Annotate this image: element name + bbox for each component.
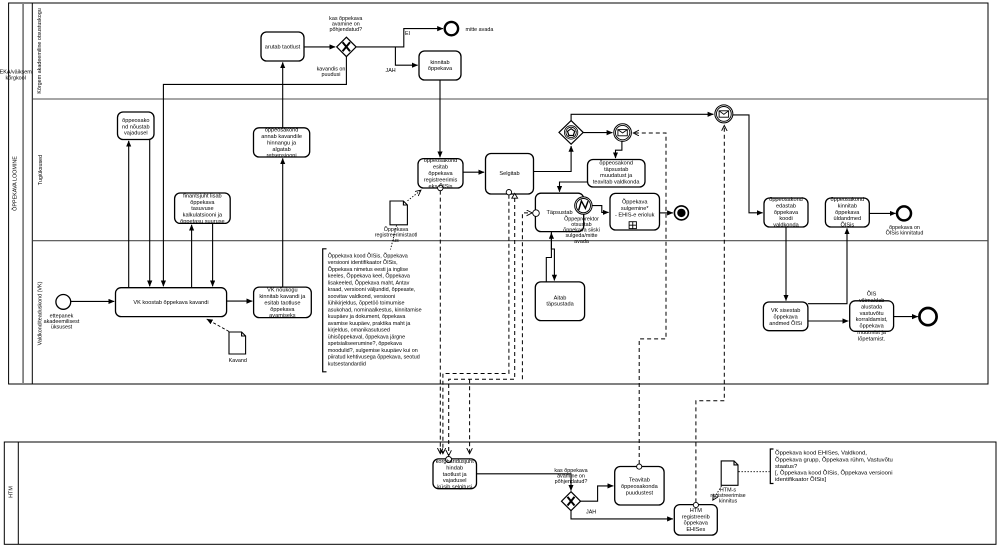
wire õppeosakond täpsustab to Täpsustab (560, 182, 588, 192)
svg-text:Õppekava kood ÕISis, Õppekava: Õppekava kood ÕISis, Õppekava (328, 252, 408, 259)
svg-text:Selgitab: Selgitab (499, 171, 519, 177)
start event ettepanek (56, 295, 71, 310)
task texts (122, 45, 888, 533)
boundary circle on Täpsustab left (533, 210, 540, 217)
svg-text:kinnitabõppekava: kinnitabõppekava (428, 60, 453, 72)
task õppeosakond täpsustab muudatust (588, 160, 646, 188)
end event õppekava on ÕISis kinnitatud (897, 206, 911, 220)
wire message flow to Täpsustab boundary (522, 213, 532, 379)
svg-text:asukohad, nominaalkestus, kinn: asukohad, nominaalkestus, kinnitamise (328, 307, 422, 313)
task õppeosakond esitab õppekava registreerimiseks (418, 159, 463, 188)
wire message flow esitab to hindab (439, 191, 441, 454)
wire VK koostab to VK nõukogu (227, 300, 253, 302)
svg-text:õppekava onÕISis kinnitatud: õppekava onÕISis kinnitatud (886, 225, 924, 237)
wire error event to Õppekava sulgemine (592, 206, 609, 213)
svg-text:kõrgkool: kõrgkool (6, 76, 26, 82)
wire association kinnitus to HTM registreerib (713, 486, 722, 500)
svg-text:ÕPPEKAVA LOOMINE: ÕPPEKAVA LOOMINE (11, 156, 18, 211)
svg-text:Täpsustab: Täpsustab (546, 210, 572, 216)
wire Selgitab to event gateway (534, 146, 572, 172)
wire event gateway to message event 1 (583, 132, 612, 134)
svg-text:lühikirjeldus, õppetöö toimumi: lühikirjeldus, õppetöö toimumise (328, 301, 405, 307)
svg-text:VK koostab õppekava kavandi: VK koostab õppekava kavandi (133, 300, 208, 306)
task õppeosakond kinnitab õppekava üldandmed (825, 198, 869, 227)
task VK koostab õppekava kavandi (116, 288, 227, 317)
boundary circle on Selgitab (506, 190, 511, 195)
pool label band separator (22, 3, 24, 384)
task VK sisestab õppekava andmed ÕISi (763, 302, 808, 331)
boundary circle on Teavitab top (637, 464, 642, 469)
wire gateway EI to mitte avada (356, 29, 443, 47)
svg-text:[, Õppekava kood ÕISis, Õppeka: [, Õppekava kood ÕISis, Õppekava versioo… (775, 470, 893, 477)
svg-text:VK sisestabõppekavaandmed ÕISi: VK sisestabõppekavaandmed ÕISi (769, 308, 802, 327)
message event 2 (715, 105, 733, 123)
wire õppeosakond esitab to Selgitab (463, 171, 484, 173)
svg-text:õppeosakondesitabõppekavaregis: õppeosakondesitabõppekavaregistreerimise… (424, 158, 458, 190)
wire message flow Teavitab to message event 1 (634, 133, 667, 464)
svg-text:staatus?: staatus? (775, 464, 798, 470)
wire VK nõukogu up to õppeosakond annab kavandile (282, 158, 284, 287)
task Teavitab õppeosakonda puudustest (615, 467, 664, 506)
svg-text:HTM: HTM (9, 486, 15, 498)
gateway kas õppekava avamine on põhjendatud (337, 37, 356, 56)
wire õppeosakond annab kavandile up to arutab taotlust (282, 62, 284, 127)
error boundary event on Täpsustab (575, 197, 592, 214)
svg-text:keeles, Õppekava keel, Õppekav: keeles, Õppekava keel, Õppekava (328, 273, 410, 280)
wire message event 2 to õppeosakond edastab (733, 115, 763, 213)
wire finantsjuht down to VK koostab (212, 223, 214, 286)
wire gateway HTM JAH to HTM registreerib (571, 510, 673, 519)
svg-text:kuupäev ja dokument, õppekava: kuupäev ja dokument, õppekava (328, 314, 406, 320)
svg-text:identifikaator ÕISis]: identifikaator ÕISis] (775, 476, 826, 483)
end event after ÕIS võimaldab (919, 308, 936, 325)
task HTM registreerib õppekava EHISes (674, 505, 717, 535)
svg-text:Õppekava kood EHISes, Valdkond: Õppekava kood EHISes, Valdkond, (775, 450, 867, 457)
svg-text:avamise kuupäev, praktika maht: avamise kuupäev, praktika maht ja (328, 321, 411, 327)
svg-text:kraad, versiooni väljundid, õp: kraad, versiooni väljundid, õppeaste, (328, 287, 416, 293)
boundary circle on HTM registreerib top (693, 502, 698, 507)
task VK nõukogu kinnitab kavandi (254, 287, 312, 318)
svg-text:JAH: JAH (586, 510, 596, 516)
svg-text:versiooni identifikaator ÕISis: versiooni identifikaator ÕISis, (328, 259, 398, 266)
wire VK koostab up to õppeosakond nõustab (128, 141, 130, 288)
annotation bracket middle (323, 249, 327, 372)
wire VK sisestab up to õppeosakond kinnitab (808, 228, 847, 303)
task arutab taotlust (261, 32, 304, 61)
wire Täpsustab down to Aitab täpsustada (551, 232, 554, 281)
svg-text:moodulid?, sulgemise kuupäev k: moodulid?, sulgemise kuupäev kui on (328, 348, 418, 354)
task õppeosakond edastab õppekava koodi (764, 198, 808, 227)
svg-text:õppeosakond nõustabvajadusel: õppeosakond nõustabvajadusel (122, 118, 150, 137)
svg-text:soovitav valdkond, versiooni: soovitav valdkond, versiooni (328, 294, 395, 300)
wire message flow Selgitab triangle to hindab circle (449, 198, 515, 456)
svg-text:kas õppekavaavamine onpõhjenda: kas õppekavaavamine onpõhjendatud? (329, 16, 362, 33)
svg-text:arutab taotlust: arutab taotlust (265, 45, 301, 51)
wire VK sisestab to ÕIS võimaldab (808, 320, 848, 322)
pool EKA/väiksem kõrgkool + ÕPPEKAVA LOOMINE (9, 3, 988, 384)
wire arutab taotlust to gateway (304, 46, 335, 48)
svg-text:EI: EI (405, 31, 410, 37)
wire association kinnitus to annotation HTM (739, 471, 770, 473)
annotation bracket HTM (770, 449, 773, 484)
wire Aitab täpsustada up to Täpsustab (546, 233, 551, 282)
wire gateway HTM to Teavitab (581, 486, 614, 501)
wire Õppekava sulgemine to terminate (660, 212, 673, 214)
svg-text:Kavand: Kavand (229, 358, 247, 364)
wire gateway kavandis on puudusi to VK koostab (163, 56, 346, 286)
wire hindab taotlust to gateway HTM (477, 474, 572, 491)
wire õppeosakond edastab down to VK sisestab (785, 227, 787, 301)
svg-text:kas õppekavaavamine onpõhjenda: kas õppekavaavamine onpõhjendatud? (554, 468, 587, 485)
wire kinnitab õppekava down to õppeosakond esitab (439, 80, 441, 157)
wire ÕIS võimaldab to end event (894, 316, 918, 318)
task Õppekava sulgemine (610, 193, 660, 230)
task hindab taotlust (433, 459, 477, 489)
svg-text:JAH: JAH (386, 68, 396, 74)
event gateway (559, 121, 583, 145)
task õppeosakond annab kavandile hinnangu (254, 128, 310, 157)
pool HTM (4, 442, 996, 544)
svg-text:Kõrgem akadeemiline otsustusko: Kõrgem akadeemiline otsustuskogu (37, 8, 43, 93)
subprocess marker Õppekava sulgemine (629, 222, 636, 229)
annotation text middle (328, 252, 422, 367)
task Selgitab (486, 154, 534, 195)
annotation text HTM (775, 450, 893, 484)
task finantsjuht lisab (175, 193, 231, 223)
svg-text:ÕISvõimaldabalustadavastuvõtuk: ÕISvõimaldabalustadavastuvõtukorraldamis… (856, 291, 888, 343)
wire association Kavand to VK koostab (207, 319, 229, 331)
wire õppeosakond nõustab down to VK koostab (149, 140, 151, 287)
task ÕIS võimaldab alustada (850, 301, 894, 332)
boundary circle on esitab (438, 185, 443, 190)
svg-text:spetsialiseerumine?, õppekava: spetsialiseerumine?, õppekava (328, 341, 402, 347)
boundary circle on hindab top (446, 457, 452, 463)
svg-text:Õppekava nimetus eesti ja ingl: Õppekava nimetus eesti ja inglise (328, 266, 408, 273)
wire association registreerimistaotlus to esitab (408, 190, 421, 201)
svg-text:Tugiüksused: Tugiüksused (38, 155, 44, 185)
svg-text:õppeosakondannab kavandilehinn: õppeosakondannab kavandilehinnangu jaalg… (261, 128, 302, 160)
task õppeosakond nõustab vajadusel (118, 112, 155, 140)
wire event gateway top to message event 2 (571, 114, 713, 120)
wire message flow junction to hindab (469, 379, 471, 453)
svg-text:lisakeeled, Õppekava maht, Ant: lisakeeled, Õppekava maht, Antav (328, 279, 410, 286)
document HTM-i registreerimise kinnitus (721, 461, 738, 485)
svg-text:kutsestandardid: kutsestandardid (328, 361, 366, 367)
task kinnitab õppekava (419, 51, 461, 80)
task Aitab täpsustada (535, 282, 584, 321)
svg-text:õppeosakondedastabõppekavakood: õppeosakondedastabõppekavakoodivaldkonda (769, 197, 803, 229)
svg-text:kirjeldus, omanikasutused: kirjeldus, omanikasutused (328, 328, 390, 334)
wire VK koostab up to finantsjuht (191, 225, 193, 288)
svg-text:piiratud kehtivusega õppekava,: piiratud kehtivusega õppekava, seotud (328, 355, 420, 361)
lane divider 2 (32, 240, 988, 242)
task Täpsustab (535, 193, 583, 231)
wire start to VK koostab (71, 300, 115, 302)
boundary triangle on Selgitab (512, 193, 518, 198)
document Õppekava registreerimistaotlus (390, 201, 407, 225)
document Kavand (229, 332, 246, 354)
wire message flow Selgitab circle to hindab (443, 195, 509, 454)
svg-text:Õppekava grupp, Õppekava rühm,: Õppekava grupp, Õppekava rühm, Vastuvõtu (775, 456, 893, 463)
lane divider 1 (32, 98, 988, 100)
gateway HTM kas õppekava avamine on põhjendatud (562, 492, 581, 511)
svg-text:ühisõppekaval, õppekava järgne: ühisõppekaval, õppekava järgne (328, 334, 405, 340)
wire õppeosakond kinnitab to end event (869, 212, 895, 214)
wire message flow HTM registreerib to message event 2 (696, 126, 724, 503)
wire association registreerimistaotlus to annotation (391, 225, 397, 249)
wire gateway JAH to kinnitab õppekava (395, 47, 417, 65)
svg-text:Valdkond/teaduskond (VK): Valdkond/teaduskond (VK) (38, 281, 44, 345)
svg-text:mitte avada: mitte avada (466, 27, 494, 33)
terminate event (674, 206, 688, 220)
end event mitte avada (445, 22, 458, 35)
wire message event 1 to õppeosakond täpsustab (616, 142, 622, 159)
message event 1 (614, 124, 632, 142)
